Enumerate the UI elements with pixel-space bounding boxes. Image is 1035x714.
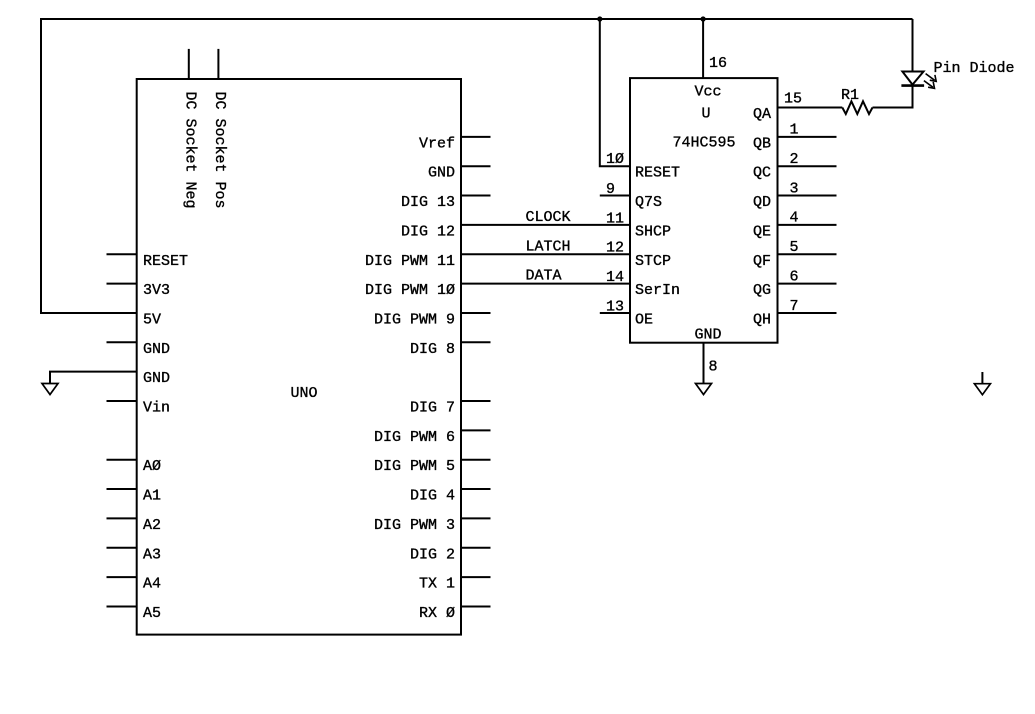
UNO DC Socket Pos pin stub xyxy=(217,49,219,79)
wire: rail down to LED anode xyxy=(912,19,914,72)
svg-text:16: 16 xyxy=(709,55,727,72)
junction: top rail to 74HC595 Vcc branch xyxy=(701,16,706,21)
LED D1 Pin Diode symbol xyxy=(901,72,936,89)
svg-text:SerIn: SerIn xyxy=(635,282,680,299)
svg-text:5V: 5V xyxy=(143,311,161,328)
svg-text:A3: A3 xyxy=(143,546,161,563)
wire: UNO GND pin to ground symbol xyxy=(50,372,137,384)
svg-text:Vref: Vref xyxy=(419,135,455,152)
svg-text:DIG PWM 6: DIG PWM 6 xyxy=(374,429,455,446)
svg-text:DIG 13: DIG 13 xyxy=(401,194,455,211)
svg-text:QG: QG xyxy=(753,282,771,299)
svg-text:2: 2 xyxy=(790,151,799,168)
wire: CLOCK net (UNO to 74HC595) xyxy=(461,224,630,226)
svg-text:Q7S: Q7S xyxy=(635,194,662,211)
UNO pin stub (DIG PWM 5) xyxy=(461,459,491,461)
svg-text:STCP: STCP xyxy=(635,253,671,270)
74HC595 pin 5 stub (QF) xyxy=(778,253,837,255)
svg-text:LATCH: LATCH xyxy=(526,238,571,255)
svg-text:DIG 12: DIG 12 xyxy=(401,223,455,240)
svg-text:DIG 2: DIG 2 xyxy=(410,546,455,563)
IC U1 74HC595 body xyxy=(630,78,778,343)
UNO pin stub (RX 0) xyxy=(461,605,491,607)
svg-text:A5: A5 xyxy=(143,605,161,622)
svg-text:DIG PWM 9: DIG PWM 9 xyxy=(374,311,455,328)
svg-text:8: 8 xyxy=(709,359,718,376)
junction: top rail to 74HC595 RESET branch xyxy=(597,16,602,21)
wire: rail down to 74HC595 Vcc pin 16 xyxy=(702,19,704,78)
74HC595 pin 13 stub (OE) xyxy=(600,312,630,314)
svg-text:A2: A2 xyxy=(143,517,161,534)
svg-text:3: 3 xyxy=(790,180,799,197)
svg-text:6: 6 xyxy=(790,268,799,285)
svg-text:9: 9 xyxy=(606,181,615,198)
UNO pin stub (DIG 4) xyxy=(461,488,491,490)
IC Arduino UNO body xyxy=(137,79,461,635)
svg-text:GND: GND xyxy=(143,370,170,387)
UNO pin stub (DIG PWM 3) xyxy=(461,517,491,519)
svg-text:OE: OE xyxy=(635,311,653,328)
svg-text:QD: QD xyxy=(753,194,771,211)
svg-text:5: 5 xyxy=(790,239,799,256)
svg-text:A4: A4 xyxy=(143,576,161,593)
UNO pin stub (DIG 13) xyxy=(461,195,491,197)
svg-text:AØ: AØ xyxy=(143,458,161,475)
UNO pin stub (DIG 8) xyxy=(461,341,491,343)
svg-text:QE: QE xyxy=(753,223,771,240)
UNO pin stub (GND) xyxy=(107,341,137,343)
svg-text:SHCP: SHCP xyxy=(635,223,671,240)
UNO pin stub (A0) xyxy=(107,459,137,461)
ground symbol (UNO GND) xyxy=(42,384,58,395)
svg-text:7: 7 xyxy=(790,298,799,315)
svg-text:1Ø: 1Ø xyxy=(606,151,624,168)
svg-text:74HC595: 74HC595 xyxy=(673,135,736,152)
resistor R1 xyxy=(842,101,872,114)
74HC595 pin 4 stub (QE) xyxy=(778,224,837,226)
UNO pin stub (3V3) xyxy=(107,283,137,285)
74HC595 pin 9 stub (Q7S) xyxy=(600,195,630,197)
svg-text:DIG PWM 5: DIG PWM 5 xyxy=(374,458,455,475)
74HC595 pin 1 stub (QB) xyxy=(778,136,837,138)
svg-text:TX 1: TX 1 xyxy=(419,576,455,593)
wire: stub to floating ground (right) xyxy=(981,372,983,384)
UNO pin stub (Vin) xyxy=(107,400,137,402)
74HC595 pin 3 stub (QD) xyxy=(778,195,837,197)
svg-text:GND: GND xyxy=(143,341,170,358)
svg-text:Vcc: Vcc xyxy=(695,84,722,101)
svg-text:13: 13 xyxy=(606,298,624,315)
wire: DATA net (UNO to 74HC595) xyxy=(461,283,630,285)
UNO pin stub (A1) xyxy=(107,488,137,490)
svg-text:GND: GND xyxy=(695,327,722,344)
svg-text:DATA: DATA xyxy=(526,268,562,285)
svg-text:Pin Diode: Pin Diode xyxy=(934,60,1015,77)
svg-text:QF: QF xyxy=(753,253,771,270)
svg-text:RESET: RESET xyxy=(143,253,188,270)
wire: LED cathode down to resistor row xyxy=(873,86,913,108)
svg-text:QA: QA xyxy=(753,106,771,123)
svg-text:QC: QC xyxy=(753,165,771,182)
UNO pin stub (Vref) xyxy=(461,136,491,138)
74HC595 pin 7 stub (QH) xyxy=(778,312,837,314)
svg-text:R1: R1 xyxy=(841,87,859,104)
svg-text:DIG PWM 1Ø: DIG PWM 1Ø xyxy=(365,282,455,299)
wire: resistor to 74HC595 QA pin 15 xyxy=(778,107,843,109)
UNO pin stub (A5) xyxy=(107,605,137,607)
svg-text:Vin: Vin xyxy=(143,400,170,417)
UNO pin stub (A3) xyxy=(107,547,137,549)
svg-text:A1: A1 xyxy=(143,488,161,505)
UNO pin stub (DIG 7) xyxy=(461,400,491,402)
wire: 5V net from UNO 5V pin, up left side and across top rail xyxy=(41,19,913,313)
74HC595 pin 2 stub (QC) xyxy=(778,165,837,167)
svg-text:U: U xyxy=(702,106,711,123)
svg-text:3V3: 3V3 xyxy=(143,282,170,299)
svg-text:DIG 4: DIG 4 xyxy=(410,488,455,505)
svg-text:DC Socket Pos: DC Socket Pos xyxy=(211,92,228,209)
UNO pin stub (TX 1) xyxy=(461,576,491,578)
UNO pin stub (RESET) xyxy=(107,253,137,255)
wire: 74HC595 GND pin 8 down to ground xyxy=(703,343,705,384)
svg-text:GND: GND xyxy=(428,165,455,182)
ground symbol (74HC595 GND) xyxy=(696,384,712,395)
wire: rail down to 74HC595 RESET pin 10 xyxy=(600,19,630,166)
UNO pin stub (DIG PWM 9) xyxy=(461,312,491,314)
wire: LATCH net (UNO to 74HC595) xyxy=(461,253,630,255)
svg-text:DIG 8: DIG 8 xyxy=(410,341,455,358)
svg-text:UNO: UNO xyxy=(291,385,318,402)
svg-text:DIG PWM 3: DIG PWM 3 xyxy=(374,517,455,534)
UNO pin stub (GND) xyxy=(461,165,491,167)
svg-text:1: 1 xyxy=(790,122,799,139)
svg-text:DIG 7: DIG 7 xyxy=(410,400,455,417)
svg-text:QH: QH xyxy=(753,311,771,328)
svg-text:RX Ø: RX Ø xyxy=(419,605,455,622)
UNO pin stub (DIG PWM 6) xyxy=(461,429,491,431)
svg-text:CLOCK: CLOCK xyxy=(526,209,571,226)
UNO pin stub (A4) xyxy=(107,576,137,578)
svg-text:QB: QB xyxy=(753,135,771,152)
svg-text:DIG PWM 11: DIG PWM 11 xyxy=(365,253,455,270)
svg-text:RESET: RESET xyxy=(635,165,680,182)
svg-text:DC Socket Neg: DC Socket Neg xyxy=(181,92,198,209)
ground symbol (right) xyxy=(974,384,990,395)
svg-text:4: 4 xyxy=(790,210,799,227)
UNO DC Socket Neg pin stub xyxy=(188,49,190,79)
UNO pin stub (DIG 2) xyxy=(461,547,491,549)
74HC595 pin 6 stub (QG) xyxy=(778,283,837,285)
UNO pin stub (A2) xyxy=(107,517,137,519)
svg-text:15: 15 xyxy=(784,91,802,108)
